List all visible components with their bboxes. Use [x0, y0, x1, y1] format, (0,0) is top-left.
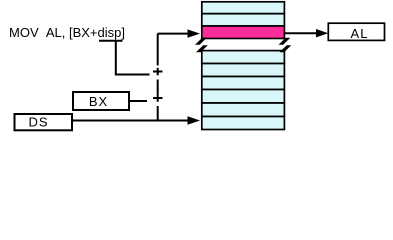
- wire effective address to memory: [158, 33, 189, 35]
- register box AL: [328, 23, 384, 40]
- wire BX to second plus: [129, 100, 147, 102]
- memory cell row5: [202, 51, 285, 64]
- arrowhead into highlighted memory cell: [188, 29, 201, 37]
- wire vertical adder line top segment: [157, 34, 159, 66]
- register box BX: [73, 92, 129, 110]
- memory cell row6: [202, 64, 285, 77]
- break mark left edge: [195, 38, 208, 53]
- wire vertical adder line bottom segment: [157, 106, 159, 121]
- underline under disp: [99, 40, 123, 42]
- memory cell row10: [202, 117, 285, 130]
- memory cell row1: [202, 2, 285, 14]
- register box DS: [15, 114, 73, 130]
- plus sign 1 (disp + BX): [153, 68, 163, 76]
- svg-text:BX: BX: [89, 94, 108, 109]
- wire memory cell to AL: [285, 32, 318, 34]
- plus sign 2 (sum + DS base): [153, 94, 163, 102]
- wire from disp down and right to first plus: [116, 41, 150, 75]
- arrowhead into AL box: [316, 29, 328, 37]
- memory column background: [201, 1, 285, 130]
- memory cell row2: [202, 14, 285, 26]
- wire DS segment base to memory: [72, 120, 189, 122]
- svg-text:AL: AL: [351, 26, 369, 41]
- memory cell row7: [202, 77, 285, 90]
- memory cell row8: [202, 90, 285, 104]
- memory cell row3 (highlighted operand cell): [202, 26, 285, 39]
- svg-text:MOV AL, [BX+disp]: MOV AL, [BX+disp]: [9, 25, 125, 40]
- memory break row (white, no side borders): [203, 39, 283, 49]
- wire vertical adder line middle segment: [157, 80, 159, 95]
- svg-text:DS: DS: [28, 115, 48, 130]
- memory cell row9: [202, 103, 285, 117]
- break mark right edge: [279, 38, 292, 53]
- arrowhead DS into memory block: [188, 116, 201, 124]
